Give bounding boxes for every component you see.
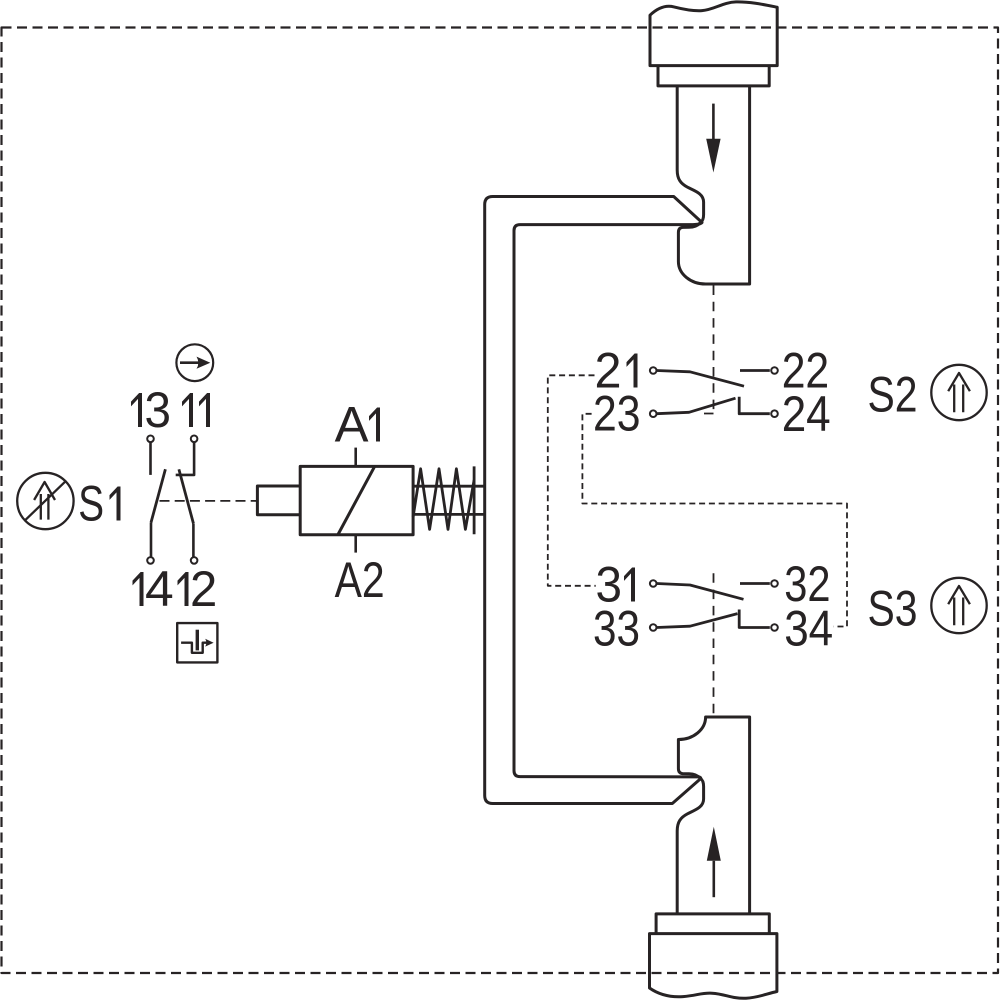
svg-text:34: 34 (784, 601, 833, 657)
terminal lead A2 (354, 535, 357, 553)
locking bolt (spring-loaded pawl, engages both tongues) (485, 197, 702, 804)
32 stub and terminal (740, 582, 770, 585)
terminal 14 lead (150, 523, 153, 558)
mechanical link: S3 contacts to bottom tongue (dashed) (713, 573, 715, 716)
symbol S2: circle with double arrow (actuated by tongue) (931, 365, 986, 420)
actuator B2 bottom tongue: collar (656, 914, 769, 934)
33 moving blade (657, 614, 738, 628)
23 moving blade (657, 398, 736, 414)
contact 23-24 (closing contact of S2): terminal 23 (650, 410, 657, 417)
svg-text:24: 24 (782, 386, 831, 442)
contact 11-12 moving blade (179, 469, 194, 523)
symbol S1: circle with crossed double arrow (no unlock while blocked) (17, 473, 73, 529)
31 moving blade (657, 584, 744, 600)
symbol S3: circle with double arrow (actuated by tongue) (931, 578, 986, 633)
contact 11-12 (NC): terminal 11 (191, 436, 198, 443)
symbol: actuating magnet direction (circle with right arrow) (176, 344, 213, 381)
return spring (413, 486, 485, 514)
terminal lead A1 (354, 448, 357, 467)
svg-text:S: S (78, 476, 104, 532)
terminal label 14 (133, 572, 144, 606)
actuator B1 top tongue: collar (658, 66, 769, 86)
actuator B2 bottom tongue: shaft with latch notch (677, 717, 749, 914)
mechanical link: 23 blade to S3 group (dashed) (582, 414, 847, 627)
svg-text:S3: S3 (868, 581, 918, 637)
contact 21-22 (opening contact of S2): terminal 21 (650, 367, 657, 374)
21 moving blade (657, 371, 745, 387)
arrow: actuator insertion direction (down) (712, 104, 715, 143)
solenoid coil Q1 body (300, 466, 413, 534)
mechanical link: top tongue to S2 contacts (dashed) (699, 286, 714, 414)
terminal 12 lead (192, 523, 195, 557)
terminal label 12 (178, 572, 189, 606)
svg-text:33: 33 (593, 601, 640, 657)
svg-text:A: A (335, 397, 370, 453)
svg-text:A2: A2 (335, 552, 385, 608)
24 fixed contact with stub (739, 397, 770, 414)
arrow: bottom tongue direction (up) (712, 861, 715, 897)
actuator B1 top tongue: shaft with latch notch (677, 86, 749, 284)
symbol: pulse function box (177, 623, 217, 662)
contact 13-14 moving blade (151, 469, 165, 522)
solenoid diagonal (338, 467, 375, 535)
actuator B2 bottom tongue: head block with break line (650, 934, 777, 999)
mechanical link: 21 blade to 31 blade (dashed) (548, 375, 596, 586)
svg-text:S2: S2 (868, 367, 918, 423)
terminal label 11 (182, 393, 193, 427)
contact 31-32 (opening contact of S3): terminal 31 (650, 580, 657, 587)
svg-text:2: 2 (190, 561, 217, 617)
mechanical link: S1 contacts to plunger (dashed) (160, 500, 258, 502)
svg-text:23: 23 (593, 386, 641, 442)
terminal label 13 (131, 393, 142, 427)
svg-text:4: 4 (145, 561, 174, 617)
contact 13-14 (NO, solenoid monitoring): terminal 13 (147, 436, 154, 443)
contact 33-34 (closing contact of S3): terminal 33 (650, 624, 657, 631)
svg-text:3: 3 (145, 382, 172, 438)
22 stub and terminal (740, 369, 770, 372)
34 fixed contact with stub (739, 610, 770, 628)
actuator B1 top tongue: head block with break line (650, 2, 777, 66)
solenoid plunger (257, 486, 300, 515)
